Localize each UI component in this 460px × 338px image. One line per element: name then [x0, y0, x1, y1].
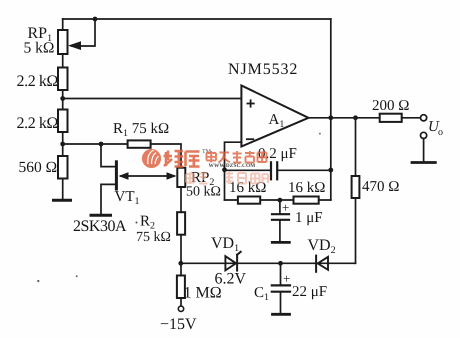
transistor VT1 channel bar — [115, 162, 118, 189]
junction RP1 wiper top — [93, 17, 98, 22]
watermark logo circle — [142, 149, 161, 168]
svg-text:R2: R2 — [140, 214, 155, 232]
junction output node — [328, 115, 333, 120]
wire inverting input — [225, 142, 242, 200]
watermark second row — [186, 172, 268, 185]
op-amp minus input sign — [246, 138, 254, 140]
arrowhead RP1 wiper — [68, 41, 81, 50]
svg-text:o: o — [438, 127, 443, 138]
svg-text:0.2 μF: 0.2 μF — [258, 146, 297, 162]
svg-text:WWW.DZSC.COM: WWW.DZSC.COM — [209, 163, 256, 169]
svg-text:NJM5532: NJM5532 — [228, 61, 298, 78]
watermark text dianzishichangwang — [207, 151, 267, 163]
svg-text:16 kΩ: 16 kΩ — [288, 180, 325, 196]
junction C1 top — [278, 261, 283, 266]
terminal -15V — [178, 306, 183, 311]
svg-text:VT1: VT1 — [115, 189, 140, 207]
arrowhead VT1 gate — [119, 172, 129, 180]
svg-text:2.2 kΩ: 2.2 kΩ — [17, 115, 59, 132]
transistor VT1 source lead — [101, 184, 115, 214]
speck bottom left b — [76, 275, 78, 277]
wire right column 470 ohm — [355, 118, 357, 263]
speck near triangle — [319, 133, 321, 135]
svg-text:50 kΩ: 50 kΩ — [186, 185, 221, 200]
transistor VT1 drain lead — [101, 144, 115, 167]
junction 16k mid — [278, 198, 283, 203]
ground bar under 560 — [54, 199, 71, 202]
resistor 2.2k lower — [58, 110, 68, 133]
svg-text:C1: C1 — [254, 285, 269, 303]
watermark char wei — [164, 151, 184, 167]
junction R2 bottom — [178, 261, 183, 266]
wire top feedback rail from RP1 top to output column — [63, 18, 331, 20]
svg-text:VD1: VD1 — [211, 235, 239, 254]
resistor 560 — [58, 156, 68, 179]
svg-text:2.2 kΩ: 2.2 kΩ — [17, 73, 59, 90]
speck bottom left a — [37, 280, 39, 282]
junction 0.2uF right — [328, 168, 333, 173]
wire RP1 wiper — [72, 19, 96, 46]
junction noninverting tap — [60, 96, 65, 101]
resistor 1M — [180, 263, 182, 275]
junction inverting node — [222, 167, 227, 172]
capacitor 1uF — [279, 200, 281, 213]
capacitor 0.2uF plates — [270, 162, 272, 179]
potentiometer RP1 — [62, 19, 64, 30]
wire 16k rail — [225, 199, 331, 201]
arrowhead RP2 wiper — [167, 172, 177, 180]
speck near R2 — [136, 222, 138, 224]
svg-text:470 Ω: 470 Ω — [362, 179, 399, 195]
wire output ground — [423, 139, 425, 162]
svg-text:1 μF: 1 μF — [295, 210, 323, 226]
ground bar output — [412, 161, 435, 164]
resistor 470 — [352, 176, 360, 198]
svg-text:560 Ω: 560 Ω — [19, 159, 58, 176]
svg-text:200 Ω: 200 Ω — [372, 98, 409, 114]
terminal Uo upper — [421, 115, 427, 121]
svg-text:+: + — [283, 271, 290, 286]
resistor 2.2k upper — [58, 68, 68, 91]
zener diode VD1 — [236, 255, 238, 271]
wire to op-amp + input — [63, 98, 242, 100]
wire zener row y=263.3 — [181, 262, 356, 264]
wire node row y=144 to R1 — [63, 143, 128, 145]
wire 0.2uF row — [225, 169, 271, 171]
svg-text:16 kΩ: 16 kΩ — [229, 180, 266, 196]
ground bar VT1 source — [91, 214, 111, 217]
junction y144 left — [60, 142, 65, 147]
svg-text:R1 75 kΩ: R1 75 kΩ — [113, 121, 169, 139]
resistor R2 75k — [177, 212, 185, 235]
svg-text:2SK30A: 2SK30A — [73, 218, 127, 235]
wire VT1 gate to RP2 wiper — [121, 175, 174, 177]
potentiometer RP2 — [177, 168, 185, 187]
ground bar 1uF — [272, 241, 289, 244]
svg-text:22 μF: 22 μF — [292, 284, 327, 300]
op-amp plus input sign — [246, 99, 255, 139]
svg-text:75 kΩ: 75 kΩ — [136, 230, 171, 245]
junction 470 top — [353, 115, 358, 120]
watermark char ku — [186, 152, 200, 167]
svg-text:VD2: VD2 — [308, 237, 336, 256]
wire R1 right to RP2 top — [151, 144, 181, 168]
wire op-amp output row — [309, 117, 380, 119]
resistor 16k left — [238, 197, 260, 204]
terminal Uo lower — [421, 132, 427, 138]
resistor 200 — [380, 114, 402, 122]
svg-text:−15V: −15V — [160, 316, 197, 333]
resistor 16k right — [294, 197, 319, 204]
resistor R1 75k — [128, 140, 151, 147]
junction VT1 drain tap — [99, 142, 104, 147]
ground bar C1 — [273, 313, 290, 316]
capacitor C1 — [280, 263, 282, 284]
diode VD2 — [315, 256, 317, 272]
svg-text:+: + — [282, 200, 289, 215]
svg-text:5 kΩ: 5 kΩ — [24, 40, 55, 57]
op-amp A1 triangle — [241, 86, 308, 147]
svg-text:1 MΩ: 1 MΩ — [184, 285, 222, 302]
wire mid column x=330.8 from top rail down to 16k rail — [330, 19, 332, 200]
